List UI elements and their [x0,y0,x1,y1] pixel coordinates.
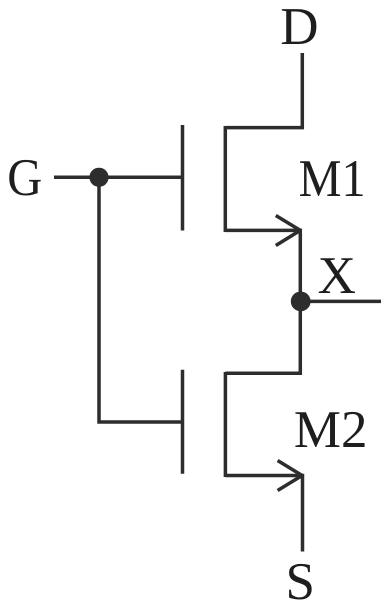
svg-text:M1: M1 [299,150,366,208]
wire G junction down to M2 gate [99,177,181,422]
wire G input to M1 gate [54,176,181,180]
svg-text:S: S [285,553,314,600]
wire node X to M2 drain [225,301,300,373]
svg-text:D: D [280,0,318,56]
svg-text:G: G [7,149,42,207]
wire M1 source to node X [225,230,300,301]
junction dot G [89,168,108,187]
wire D to M1 drain [225,53,302,128]
wire M2 source to S terminal [225,476,302,552]
transistor M1 gate bar [181,125,185,231]
transistor M2 channel [224,372,228,477]
wire node X output [300,300,381,304]
svg-text:M2: M2 [294,401,368,459]
junction dot node X [291,292,311,312]
transistor M1 channel [224,126,228,232]
transistor M1 source arrow [276,216,301,246]
svg-text:X: X [318,247,356,305]
transistor M2 gate bar [181,370,185,474]
transistor M2 source arrow [278,461,303,491]
